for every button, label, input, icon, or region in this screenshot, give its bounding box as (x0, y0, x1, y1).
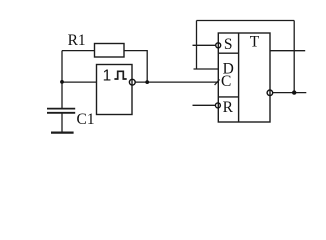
svg-text:T: T (250, 34, 260, 51)
svg-text:1: 1 (103, 68, 112, 85)
svg-text:R: R (223, 99, 234, 116)
svg-text:R1: R1 (68, 32, 86, 49)
svg-text:C: C (221, 73, 231, 90)
svg-text:S: S (224, 36, 233, 53)
svg-text:C1: C1 (77, 111, 95, 128)
